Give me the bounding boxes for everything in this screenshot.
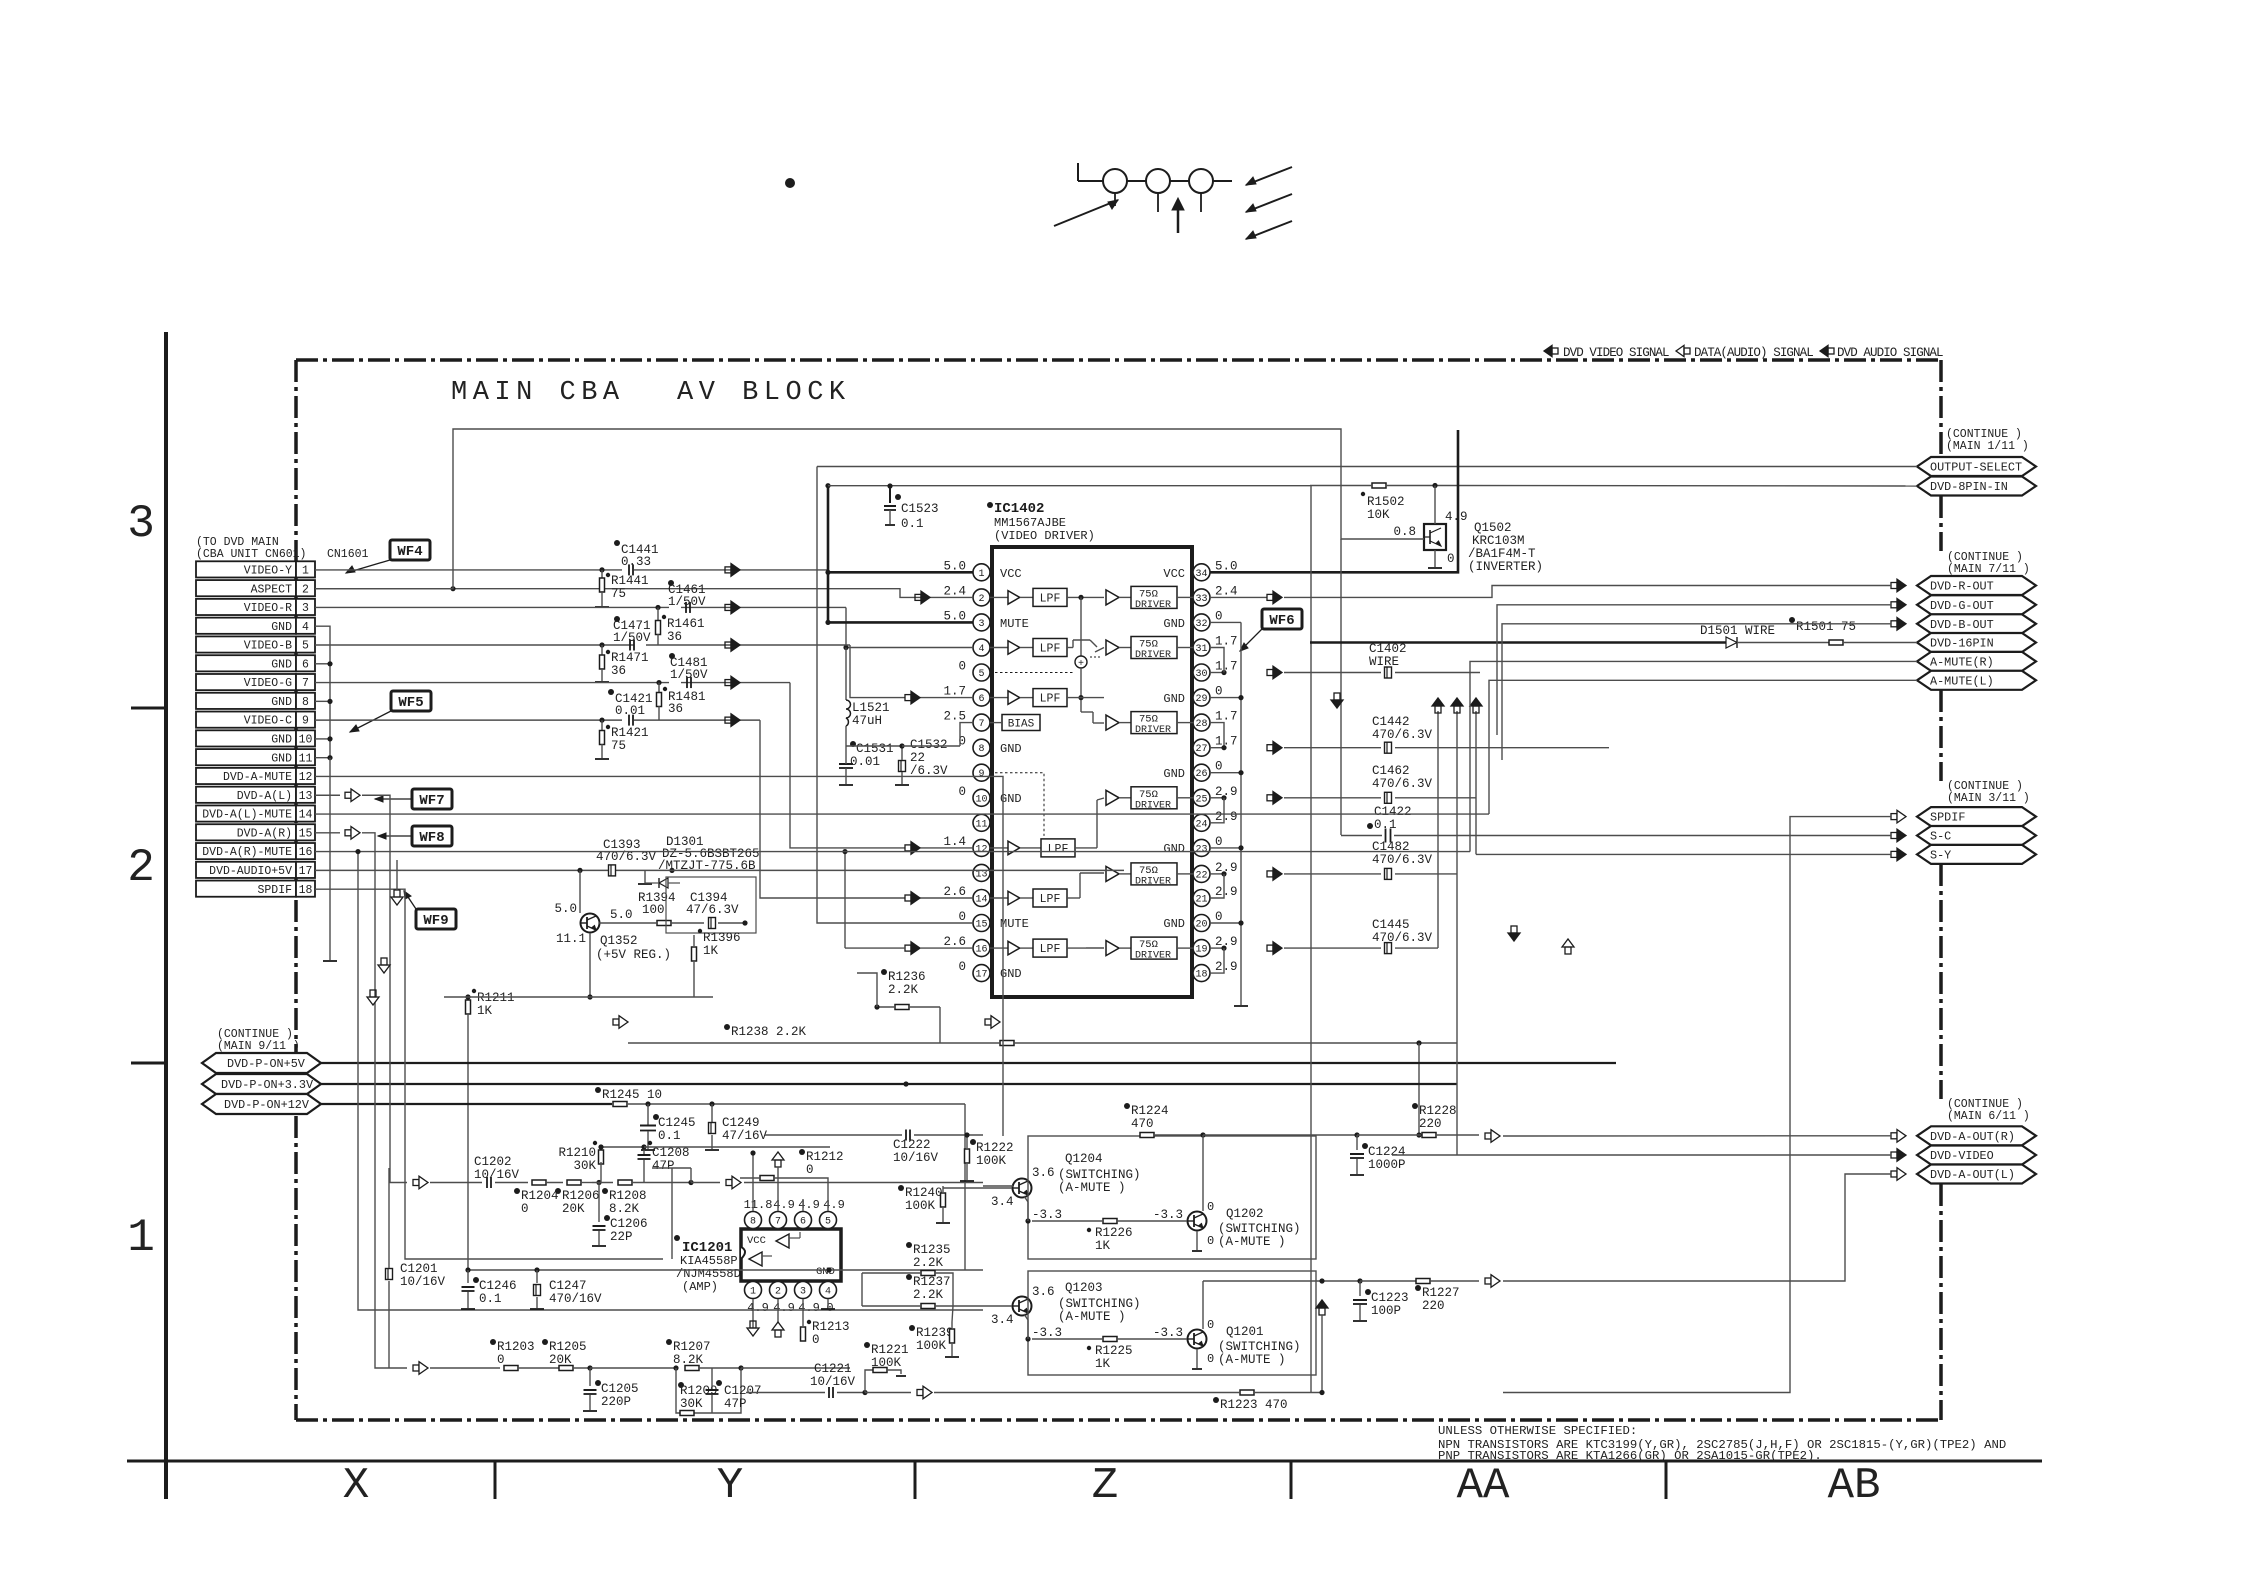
resistor R1205 <box>559 1366 573 1371</box>
svg-text:VCC: VCC <box>1163 567 1185 581</box>
svg-text:DVD-A(R)-MUTE: DVD-A(R)-MUTE <box>202 846 292 859</box>
net flag S-Y <box>1917 845 2036 864</box>
svg-text:10/16V: 10/16V <box>810 1375 856 1389</box>
svg-text:DRIVER: DRIVER <box>1135 800 1171 811</box>
svg-text:KIA4558P: KIA4558P <box>680 1254 738 1268</box>
svg-text:S-C: S-C <box>1930 830 1951 844</box>
arrow into pin16 <box>905 945 911 951</box>
svg-text:-3.3: -3.3 <box>1153 1208 1183 1222</box>
svg-text:(SWITCHING): (SWITCHING) <box>1218 1340 1301 1354</box>
svg-text:SPDIF: SPDIF <box>1930 811 1965 825</box>
svg-text:L1521: L1521 <box>852 701 890 715</box>
svg-text:47/6.3V: 47/6.3V <box>686 903 739 917</box>
svg-text:2.9: 2.9 <box>1215 960 1238 974</box>
svg-text:DRIVER: DRIVER <box>1135 600 1171 611</box>
svg-text:47/16V: 47/16V <box>722 1129 768 1143</box>
svg-text:R1227: R1227 <box>1422 1286 1460 1300</box>
svg-text:47P: 47P <box>724 1397 747 1411</box>
svg-text:LPF: LPF <box>1048 843 1069 856</box>
svg-text:1000P: 1000P <box>1368 1158 1406 1172</box>
svg-text:R1225: R1225 <box>1095 1344 1133 1358</box>
resistor R1206 <box>567 1180 581 1185</box>
block border right <box>1939 360 1943 457</box>
IC1201 pin wires <box>752 1220 754 1229</box>
svg-text:(A-MUTE ): (A-MUTE ) <box>1058 1181 1126 1195</box>
svg-text:0: 0 <box>1207 1352 1214 1366</box>
svg-text:470/6.3V: 470/6.3V <box>1372 853 1433 867</box>
wire pin34 VCC right <box>1210 430 1458 572</box>
transistor Q1352 +5V reg <box>581 914 600 933</box>
svg-text:AV BLOCK: AV BLOCK <box>677 378 851 408</box>
svg-text:6: 6 <box>302 658 309 671</box>
wire 5V reg output <box>589 933 591 997</box>
svg-text:KRC103M: KRC103M <box>1472 534 1525 548</box>
resistor R1208 <box>618 1180 632 1185</box>
svg-text:R1501 75: R1501 75 <box>1796 620 1856 634</box>
wire A-MUTE(R) <box>1470 661 1917 851</box>
svg-text:22: 22 <box>1195 870 1207 881</box>
capacitor C1222 <box>905 1130 907 1141</box>
svg-text:470/6.3V: 470/6.3V <box>1372 777 1433 791</box>
op-amp IC1402 body <box>992 547 1192 997</box>
svg-text:GND: GND <box>271 734 292 747</box>
inductor L1521 <box>845 648 847 701</box>
svg-text:1: 1 <box>978 569 984 580</box>
wire DVD-A-MUTE row <box>315 776 1003 1136</box>
svg-text:C1223: C1223 <box>1371 1291 1409 1305</box>
flag WF9 <box>416 909 456 929</box>
svg-text:DVD AUDIO SIGNAL: DVD AUDIO SIGNAL <box>1837 346 1943 360</box>
page arrow up x1322 <box>1316 1300 1328 1308</box>
svg-text:9: 9 <box>978 769 984 780</box>
svg-text:0.1: 0.1 <box>658 1129 681 1143</box>
svg-text:2.2K: 2.2K <box>913 1288 944 1302</box>
svg-text:5.0: 5.0 <box>554 902 577 916</box>
svg-text:R1421: R1421 <box>611 726 649 740</box>
svg-text:12: 12 <box>975 844 987 855</box>
resistor R1213 <box>801 1327 806 1341</box>
net flag S-C <box>1917 826 2036 845</box>
block border bottom <box>296 1418 1941 1422</box>
svg-text:11: 11 <box>975 819 987 830</box>
net flag DVD-16PIN <box>1917 633 2036 652</box>
resistor R1228 <box>1412 1103 1418 1109</box>
svg-text:WF8: WF8 <box>419 830 444 846</box>
arrow right bus <box>985 1019 991 1025</box>
svg-text:30K: 30K <box>573 1159 596 1173</box>
svg-text:C1523: C1523 <box>901 502 939 516</box>
svg-text:1: 1 <box>750 1287 756 1298</box>
svg-text:DVD-A(R): DVD-A(R) <box>237 827 292 840</box>
svg-text:0: 0 <box>1215 760 1223 774</box>
svg-text:DVD-R-OUT: DVD-R-OUT <box>1930 580 1994 594</box>
wire S-C out <box>1457 853 1891 855</box>
net flag DVD-B-OUT <box>1917 614 2036 633</box>
page arrow down x397 <box>391 897 403 905</box>
resistor R1210 C1208 pair <box>600 1147 602 1152</box>
svg-text:20K: 20K <box>562 1202 585 1216</box>
svg-text:2: 2 <box>775 1287 781 1298</box>
svg-text:GND: GND <box>271 752 292 765</box>
svg-text:(INVERTER): (INVERTER) <box>1468 560 1543 574</box>
svg-text:4: 4 <box>978 644 984 655</box>
resistor R1396 <box>699 923 701 940</box>
wire R1224 row <box>914 1134 983 1136</box>
svg-text:OUTPUT-SELECT: OUTPUT-SELECT <box>1930 461 2022 475</box>
svg-text:R1441: R1441 <box>611 574 649 588</box>
flag WF5 <box>391 691 431 711</box>
net flag DVD-VIDEO <box>1917 1146 2036 1165</box>
svg-text:AA: AA <box>1457 1461 1510 1511</box>
wire VIDEO-R row <box>315 606 669 608</box>
svg-text:3: 3 <box>127 498 155 550</box>
ornament arrows right group <box>1246 167 1292 185</box>
capacitor C1221 <box>828 1387 830 1398</box>
svg-text:DVD-P-ON+5V: DVD-P-ON+5V <box>227 1057 306 1071</box>
svg-text:10: 10 <box>299 734 313 747</box>
svg-text:(SWITCHING): (SWITCHING) <box>1058 1168 1141 1182</box>
wire SPDIF out <box>1503 817 1891 1393</box>
svg-text:DVD-8PIN-IN: DVD-8PIN-IN <box>1930 480 2008 494</box>
svg-text:LPF: LPF <box>1040 943 1061 956</box>
svg-text:IC1402: IC1402 <box>994 501 1044 517</box>
resistor R1223 <box>1240 1390 1254 1395</box>
svg-text:(VIDEO DRIVER): (VIDEO DRIVER) <box>994 529 1095 543</box>
diode D1301 symbol <box>659 878 668 888</box>
capacitor C1532 <box>899 761 906 772</box>
svg-text:R1224: R1224 <box>1131 1104 1169 1118</box>
resistor R1209 loop <box>676 1368 741 1413</box>
svg-text:DVD-B-OUT: DVD-B-OUT <box>1930 618 1994 632</box>
IC1402 BIAS box <box>1002 715 1040 731</box>
svg-text:R1213: R1213 <box>812 1320 850 1334</box>
svg-text:14: 14 <box>299 809 313 822</box>
frame tick bottom x=915 <box>914 1461 917 1499</box>
wire DVD-P-ON+12V rail <box>321 1103 612 1105</box>
op-amp IC1201 labels <box>674 1235 680 1241</box>
svg-text:MUTE: MUTE <box>1000 917 1029 931</box>
svg-text:1/50V: 1/50V <box>670 668 708 682</box>
svg-text:6: 6 <box>978 694 984 705</box>
wire VIDEO-B row <box>315 644 634 646</box>
legend arrow dvd video signal <box>1544 345 1552 356</box>
svg-text:R1239: R1239 <box>916 1326 954 1340</box>
svg-text:5.0: 5.0 <box>610 908 633 922</box>
svg-text:0.8: 0.8 <box>1393 525 1416 539</box>
svg-text:R1461: R1461 <box>667 617 705 631</box>
svg-text:0: 0 <box>958 660 966 674</box>
wire pin30 out <box>1210 672 1224 674</box>
svg-text:22: 22 <box>910 751 925 765</box>
svg-text:(+5V REG.): (+5V REG.) <box>596 948 671 962</box>
svg-text:17: 17 <box>975 970 987 981</box>
arrow into DVD-A-OUT(L) <box>1891 1171 1897 1177</box>
svg-text:1/50V: 1/50V <box>668 595 706 609</box>
arrow VIDEO-G <box>725 680 731 686</box>
svg-text:WF9: WF9 <box>423 913 448 929</box>
svg-text:MM1567AJBE: MM1567AJBE <box>994 516 1066 530</box>
IC1201 amp triangles <box>776 1234 789 1248</box>
svg-text:/NJM4558D: /NJM4558D <box>676 1267 741 1281</box>
svg-text:C1442: C1442 <box>1372 715 1410 729</box>
svg-text:3.6: 3.6 <box>1032 1285 1055 1299</box>
svg-text:47P: 47P <box>652 1159 675 1173</box>
svg-text:VIDEO-G: VIDEO-G <box>244 677 292 690</box>
svg-text:2.2K: 2.2K <box>888 983 919 997</box>
svg-text:4: 4 <box>302 621 309 634</box>
net flag DVD-A-OUT(L) <box>1917 1165 2036 1184</box>
svg-text:7: 7 <box>978 719 984 730</box>
feedback loop wires IC1201 upper <box>671 1168 673 1259</box>
svg-text:16: 16 <box>975 945 987 956</box>
svg-text:LPF: LPF <box>1040 643 1061 656</box>
svg-text:10: 10 <box>975 794 987 805</box>
wire A-MUTE(L) <box>1489 680 1917 814</box>
svg-text:20K: 20K <box>549 1353 572 1367</box>
wire ASPECT to top bus <box>315 429 1424 589</box>
net flag SPDIF <box>1917 807 2036 826</box>
transistor Q1204 <box>1013 1179 1032 1198</box>
arrow into SPDIF <box>1891 814 1897 820</box>
svg-text:16: 16 <box>299 846 313 859</box>
svg-text:DVD-P-ON+12V: DVD-P-ON+12V <box>224 1098 310 1112</box>
resistor R1225 <box>1103 1337 1117 1342</box>
resistor R1226 <box>1103 1219 1117 1224</box>
svg-text:1.7: 1.7 <box>1215 710 1238 724</box>
svg-text:75Ω: 75Ω <box>1139 865 1158 877</box>
ornament arrow up <box>1177 203 1180 233</box>
svg-text:4.9: 4.9 <box>823 1198 845 1212</box>
flag WF7 <box>412 789 452 809</box>
svg-text:(A-MUTE ): (A-MUTE ) <box>1218 1235 1286 1249</box>
svg-text:(MAIN 6/11 ): (MAIN 6/11 ) <box>1947 1110 2030 1123</box>
svg-text:0.01: 0.01 <box>850 755 880 769</box>
resistor R1245 <box>595 1087 601 1093</box>
svg-text:C1224: C1224 <box>1368 1145 1406 1159</box>
wire DVD-P-ON+5V rail <box>321 1062 1616 1064</box>
wire pin31 WF6 <box>1210 648 1224 673</box>
svg-text:75: 75 <box>611 587 626 601</box>
wire DVD-AUDIO+5V to Q1352 <box>315 869 580 871</box>
svg-text:1.7: 1.7 <box>943 685 966 699</box>
svg-text:C1249: C1249 <box>722 1116 760 1130</box>
transistor Q1203 <box>1013 1297 1032 1316</box>
svg-text:GND: GND <box>271 658 292 671</box>
transistor Q1502 inverter <box>1424 524 1446 550</box>
vertical gnd bus right of IC <box>1240 622 1242 1005</box>
svg-text:470/16V: 470/16V <box>549 1292 602 1306</box>
svg-text:R1228: R1228 <box>1419 1104 1457 1118</box>
page arrow up x778 top <box>772 1152 784 1160</box>
svg-text:R1208: R1208 <box>609 1189 647 1203</box>
svg-text:DVD-AUDIO+5V: DVD-AUDIO+5V <box>209 865 292 878</box>
resistor R1481 <box>658 683 660 693</box>
wire Q1203 base <box>935 1305 1012 1307</box>
net flag DVD-G-OUT <box>1917 595 2036 614</box>
svg-text:C1246: C1246 <box>479 1279 517 1293</box>
capacitor C1471 <box>629 640 631 651</box>
svg-text:C1206: C1206 <box>610 1217 648 1231</box>
svg-text:DRIVER: DRIVER <box>1135 650 1171 661</box>
wire DVD-A(R)-MUTE row <box>315 852 983 1310</box>
svg-text:5: 5 <box>825 1217 831 1228</box>
wire right audio row Y3 <box>407 1367 500 1369</box>
svg-text:(SWITCHING): (SWITCHING) <box>1058 1297 1141 1311</box>
bus arrows up trio <box>1432 698 1444 706</box>
svg-text:S-Y: S-Y <box>1930 848 1951 862</box>
svg-text:DVD-16PIN: DVD-16PIN <box>1930 637 1994 651</box>
wire lower switch output <box>1202 1281 1204 1329</box>
IC1402 channel chains <box>990 596 1008 598</box>
svg-text:18: 18 <box>1195 970 1207 981</box>
svg-text:6: 6 <box>800 1217 806 1228</box>
svg-text:0.1: 0.1 <box>1374 818 1397 832</box>
wire pin19/18 chain <box>1210 947 1224 949</box>
svg-text:12: 12 <box>299 771 313 784</box>
svg-text:2.6: 2.6 <box>943 935 966 949</box>
capacitor C1246 <box>467 1270 469 1283</box>
page arrow down x384 <box>378 965 390 973</box>
flag WF6 <box>1262 609 1302 629</box>
svg-text:GND: GND <box>271 621 292 634</box>
svg-text:0: 0 <box>1215 910 1223 924</box>
svg-text:R1396: R1396 <box>703 931 741 945</box>
svg-text:LPF: LPF <box>1040 893 1061 906</box>
svg-text:0: 0 <box>1215 685 1223 699</box>
svg-text:R1226: R1226 <box>1095 1226 1133 1240</box>
svg-text:36: 36 <box>611 664 626 678</box>
connector CN1601 table <box>196 561 296 577</box>
svg-text:24: 24 <box>1195 819 1207 830</box>
svg-text:(CBA UNIT CN601): (CBA UNIT CN601) <box>196 548 306 561</box>
resistor R1207 <box>685 1366 699 1371</box>
svg-text:(SWITCHING): (SWITCHING) <box>1218 1222 1301 1236</box>
svg-text:LPF: LPF <box>1040 592 1061 605</box>
arrow into pin14 <box>905 895 911 901</box>
resistor R1502 <box>1372 483 1386 488</box>
wire OUTPUT-SELECT run <box>817 466 1917 468</box>
gnd ties connector <box>315 626 330 757</box>
svg-text:29: 29 <box>1195 694 1207 705</box>
resistor R1501 <box>1789 617 1795 623</box>
wire Q1204 base <box>983 1185 1013 1187</box>
svg-text:3: 3 <box>800 1287 806 1298</box>
svg-text:47uH: 47uH <box>852 714 882 728</box>
capacitor C1223 <box>1359 1281 1361 1296</box>
svg-text:Q1204: Q1204 <box>1065 1152 1103 1166</box>
svg-text:2.9: 2.9 <box>1215 810 1238 824</box>
net flag DVD-P-ON+3.3V <box>202 1074 321 1094</box>
arrow VIDEO-C <box>725 717 731 723</box>
svg-text:0: 0 <box>812 1333 820 1347</box>
svg-text:DVD-P-ON+3.3V: DVD-P-ON+3.3V <box>221 1078 314 1092</box>
wire left audio row Y1 <box>389 1182 482 1184</box>
wire R1235 vert <box>861 1273 863 1306</box>
bus arrow up x1568 <box>1562 939 1574 947</box>
svg-text:8: 8 <box>302 696 309 709</box>
svg-text:9: 9 <box>302 715 309 728</box>
svg-text:R1235: R1235 <box>913 1243 951 1257</box>
svg-text:SPDIF: SPDIF <box>257 884 292 897</box>
svg-text:C1205: C1205 <box>601 1382 639 1396</box>
svg-text:R1222: R1222 <box>976 1141 1014 1155</box>
capacitor C1461 <box>685 602 687 613</box>
svg-text:C1462: C1462 <box>1372 764 1410 778</box>
svg-text:0: 0 <box>958 960 966 974</box>
svg-text:GND: GND <box>1163 617 1185 631</box>
svg-text:VIDEO-C: VIDEO-C <box>244 715 292 728</box>
svg-text:27: 27 <box>1195 744 1207 755</box>
svg-text:8: 8 <box>978 744 984 755</box>
svg-text:4.9: 4.9 <box>773 1301 795 1315</box>
svg-text:VCC: VCC <box>1000 567 1022 581</box>
svg-text:20: 20 <box>1195 920 1207 931</box>
svg-text:1K: 1K <box>477 1004 493 1018</box>
capacitor C1207 <box>713 1368 715 1386</box>
resistor R1471 <box>601 645 603 656</box>
wire MUTE pin3 bus <box>828 621 973 624</box>
svg-text:0: 0 <box>1447 552 1455 566</box>
bus arrow down x1337 <box>1331 700 1343 708</box>
svg-text:3.6: 3.6 <box>1032 1166 1055 1180</box>
net flag DVD-A-OUT(R) <box>1917 1126 2036 1145</box>
arrow mid bus <box>613 1019 619 1025</box>
svg-text:2.6: 2.6 <box>943 885 966 899</box>
svg-text:GND: GND <box>1163 842 1185 856</box>
svg-text:28: 28 <box>1195 719 1207 730</box>
svg-text:R1238 2.2K: R1238 2.2K <box>731 1025 807 1039</box>
arrow VIDEO-R <box>725 604 731 610</box>
svg-text:30: 30 <box>1195 669 1207 680</box>
IC1402 75ohm drivers <box>1106 590 1119 605</box>
svg-text:-3.3: -3.3 <box>1032 1326 1062 1340</box>
svg-text:C1531: C1531 <box>856 742 894 756</box>
svg-text:R1206: R1206 <box>562 1189 600 1203</box>
svg-text:4.9: 4.9 <box>798 1301 820 1315</box>
wires DVD-G/B long runs <box>1497 605 1891 735</box>
svg-text:75Ω: 75Ω <box>1139 939 1158 951</box>
frame tick bottom x=1666 <box>1665 1461 1668 1499</box>
svg-text:100: 100 <box>642 903 665 917</box>
capacitor C1531 <box>839 763 853 765</box>
svg-text:R1211: R1211 <box>477 991 515 1005</box>
svg-text:WF7: WF7 <box>419 793 444 809</box>
wire DVD-A(L)-MUTE row <box>315 814 940 1110</box>
svg-text:0: 0 <box>958 785 966 799</box>
svg-text:(MAIN 3/11 ): (MAIN 3/11 ) <box>1947 792 2030 805</box>
svg-text:R1502: R1502 <box>1367 495 1405 509</box>
svg-text:ASPECT: ASPECT <box>251 583 293 596</box>
flag WF8 <box>412 826 452 846</box>
svg-text:470/6.3V: 470/6.3V <box>1372 728 1433 742</box>
svg-text:0: 0 <box>1215 609 1223 623</box>
svg-text:23: 23 <box>1195 844 1207 855</box>
svg-text:PNP TRANSISTORS ARE KTA1266(GR: PNP TRANSISTORS ARE KTA1266(GR) OR 2SA10… <box>1438 1449 1822 1463</box>
capacitor C1481 <box>686 677 688 688</box>
svg-text:R1205: R1205 <box>549 1340 587 1354</box>
svg-text:R1210: R1210 <box>558 1146 596 1160</box>
svg-text:4.9: 4.9 <box>1445 510 1468 524</box>
svg-text:C1402: C1402 <box>1369 642 1407 656</box>
svg-text:32: 32 <box>1195 619 1207 630</box>
arrow into DVD-R-OUT <box>1891 583 1897 589</box>
svg-text:0: 0 <box>958 910 966 924</box>
wire DVD-VIDEO long <box>1392 1154 1891 1156</box>
net flag DVD-P-ON+12V <box>202 1094 321 1114</box>
svg-text:0.1: 0.1 <box>901 517 924 531</box>
net flag DVD-R-OUT <box>1917 576 2036 595</box>
svg-text:DATA(AUDIO) SIGNAL: DATA(AUDIO) SIGNAL <box>1694 346 1813 360</box>
